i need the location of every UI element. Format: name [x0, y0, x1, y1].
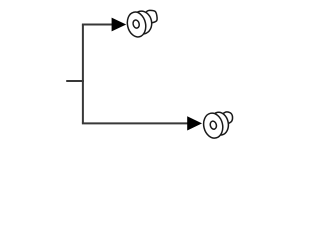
arrowhead to bottom fastener	[187, 116, 202, 130]
wire: top branch	[82, 24, 114, 26]
wire: bottom branch	[82, 122, 190, 124]
fastener bolt (bottom)	[201, 111, 232, 140]
stem with rounded cap	[145, 10, 157, 23]
washer rim	[209, 111, 231, 137]
wire: vertical trunk	[82, 25, 84, 124]
wire: left tick	[66, 80, 84, 82]
arrowhead to top fastener	[112, 18, 127, 32]
fastener bolt (top)	[125, 9, 157, 39]
washer face	[201, 111, 225, 140]
washer face	[125, 10, 148, 39]
hole	[132, 19, 140, 28]
hole	[209, 120, 217, 129]
stem with rounded cap	[215, 112, 233, 124]
washer rim	[131, 9, 154, 35]
